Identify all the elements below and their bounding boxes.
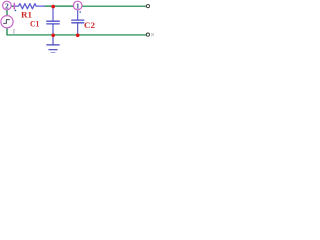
voltage source V1 (circle) [1,16,13,28]
source step glyph [4,20,10,24]
wire source bottom stem [6,28,8,35]
faint x cursor mark [151,33,154,36]
pin dot R1 [15,10,17,12]
capacitor C2 [72,10,84,35]
open terminal bottom right [146,33,149,36]
ground [47,35,59,52]
node bubble 2 [3,1,12,10]
pin dot C2 [79,11,81,13]
junction dot bottom C2 [76,34,80,38]
svg-text:C2: C2 [84,21,95,30]
wire top left stub [12,5,16,7]
wire top right [82,5,146,7]
resistor R1 [15,4,45,9]
open terminal top right [146,5,149,8]
svg-text:R1: R1 [21,10,32,19]
svg-text:C1: C1 [30,20,39,29]
node bubble 1 [73,1,82,10]
junction dot node 1 top (C1) [51,5,55,9]
wire bottom [7,34,146,36]
wire top middle [44,5,74,7]
faint source minus lead [13,29,15,34]
source plus marker [13,3,15,8]
svg-text:1: 1 [76,1,80,10]
wire source top stem [6,10,8,15]
junction dot bottom C1/ground [51,34,55,38]
svg-text:2: 2 [5,1,9,10]
capacitor C1 [47,6,59,35]
